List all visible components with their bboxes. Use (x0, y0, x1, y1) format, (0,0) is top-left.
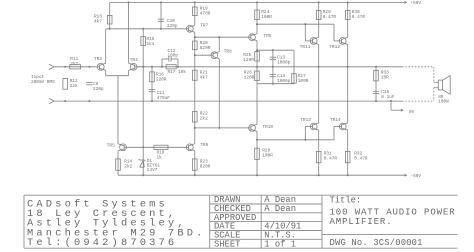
resistor R33 (374, 70, 389, 81)
transistor TR7 (186, 23, 208, 32)
resistor R24 (255, 10, 273, 20)
junction output line (256, 66, 258, 68)
svg-text:0.47R: 0.47R (352, 15, 366, 20)
label input (31, 75, 55, 85)
junction TR10 base line (194, 127, 196, 129)
junction TR9 base line (194, 36, 196, 38)
junction +50V rail (194, 1, 196, 3)
junction output line (272, 66, 274, 68)
node 0V (391, 101, 415, 115)
wire TR14 emitter R32 to -50V (347, 130, 349, 175)
svg-text:0.47R: 0.47R (323, 15, 337, 20)
svg-text:1000p: 1000p (277, 61, 291, 66)
wire output line (137, 66, 402, 68)
svg-text:0.1uF: 0.1uF (381, 95, 395, 100)
svg-text:R17 10k: R17 10k (168, 70, 187, 75)
svg-text:100W: 100W (438, 100, 449, 105)
title block fields (214, 195, 301, 249)
svg-text:820R: 820R (200, 46, 211, 51)
junction R13 node line (142, 28, 144, 30)
junction TR9 base line (218, 36, 220, 38)
svg-text:TR5: TR5 (107, 143, 115, 148)
wire R24 TR9 collector (256, 2, 258, 33)
junction C14 bottom (272, 83, 274, 85)
junction +50V rail (347, 1, 349, 3)
capacitor C11 (149, 90, 170, 102)
svg-text:220R: 220R (156, 77, 167, 82)
wire input to TR3 base (54, 66, 97, 68)
wire -50V rail (118, 174, 404, 176)
wire TR11 base drop (305, 24, 310, 41)
wire TR12 base drop (334, 24, 339, 41)
junction output line (151, 66, 153, 68)
svg-text:2k2: 2k2 (70, 62, 78, 67)
wire R30 to TR12 collector (347, 2, 349, 37)
junction zener top (142, 146, 144, 148)
speaker LS1 8R 100W (434, 76, 450, 105)
wire TR8 collector (218, 37, 220, 51)
svg-text:220p: 220p (167, 24, 178, 29)
svg-text:TR9: TR9 (264, 34, 272, 39)
wire R19 to TR7 collector (194, 2, 196, 25)
resistor R30 (345, 10, 365, 20)
wire R15 / zener column (142, 29, 144, 148)
resistor R13 (94, 14, 112, 24)
wire TR8 collector to TR9 base (195, 36, 249, 38)
junction TR11 base drop (304, 23, 306, 25)
wire R13 column (109, 2, 111, 28)
wire +50V rail (110, 1, 404, 3)
junction input line (64, 66, 66, 68)
wire ground dashed to speaker (402, 100, 434, 102)
resistor R21 (193, 70, 209, 80)
svg-text:A Dean: A Dean (264, 204, 296, 214)
svg-text:100p: 100p (168, 53, 179, 58)
svg-text:TR12: TR12 (329, 45, 340, 50)
svg-text:100R: 100R (262, 154, 273, 159)
wire TR8 base (195, 54, 211, 56)
wire R22 to TR6 collector (194, 128, 196, 144)
svg-text:-50V: -50V (411, 174, 422, 179)
svg-text:DWG No. 3CS/00001: DWG No. 3CS/00001 (330, 238, 423, 248)
junction +50V rail (128, 1, 130, 3)
junction output line (318, 66, 320, 68)
junction output line (375, 66, 377, 68)
capacitor C14 (270, 74, 291, 84)
svg-text:220p: 220p (93, 87, 104, 92)
resistor R31 (316, 151, 337, 162)
wire TR4 collector (128, 2, 130, 63)
junction output line (347, 66, 349, 68)
wire C13 column (272, 50, 274, 67)
resistor R11 (70, 57, 81, 69)
svg-text:Tel:(0942)870376: Tel:(0942)870376 (27, 237, 177, 249)
transistor TR9 (249, 34, 272, 41)
svg-text:TR11: TR11 (300, 45, 311, 50)
title block table rows (210, 204, 322, 239)
junction ground line (151, 100, 153, 102)
junction +50V rail (318, 1, 320, 3)
wire TR12 emitter to TR14 collector (347, 45, 349, 123)
svg-text:100R: 100R (298, 79, 309, 84)
svg-text:470R: 470R (200, 11, 211, 16)
junction R13 node line (109, 28, 111, 30)
svg-text:TR13: TR13 (300, 118, 311, 123)
wire TR14 base drop (334, 127, 339, 140)
wire R27 column (293, 50, 295, 83)
wire C14 column (272, 67, 274, 84)
wire R26/C14/R27 bottoms (257, 83, 294, 85)
svg-text:22k: 22k (70, 84, 78, 89)
junction -50V rail (194, 174, 196, 176)
junction TR9 emitter node (256, 49, 258, 51)
svg-text:100R: 100R (261, 15, 272, 20)
junction -50V rail (142, 174, 144, 176)
resistor R16 (150, 72, 167, 83)
transistor TR4 (129, 58, 138, 71)
svg-text:1k: 1k (157, 156, 163, 161)
svg-text:470uF: 470uF (157, 96, 171, 101)
title block dwg divider (322, 234, 458, 236)
svg-text:Title:: Title: (330, 196, 362, 206)
wire TR7 emitter chain R20 R21 R22 (194, 32, 196, 128)
junction +50V rail (256, 1, 258, 3)
junction ground line (88, 100, 90, 102)
wire TR9 emitter R25 R26 to TR10 collector (256, 41, 258, 125)
capacitor C10 (158, 19, 178, 29)
svg-text:AMPLIFIER.: AMPLIFIER. (330, 217, 393, 227)
wire R16/C11 column (151, 67, 153, 101)
wire TR13 emitter R31 to -50V (318, 130, 320, 175)
junction output base line (256, 139, 258, 141)
svg-text:4k7: 4k7 (94, 19, 102, 24)
wire 0V ground line (54, 100, 402, 102)
wire TR3 emitter (105, 70, 107, 75)
svg-text:TR14: TR14 (330, 118, 341, 123)
svg-text:TR3: TR3 (94, 57, 102, 62)
wire TR10 emitter node to output bases (257, 139, 334, 141)
junction input line (88, 66, 90, 68)
junction TR9 emitter node (272, 49, 274, 51)
resistor R32 (345, 151, 367, 162)
capacitor C15 (373, 90, 395, 100)
junction output line (142, 66, 144, 68)
wire TR6 collector to TR10 base (195, 127, 249, 129)
svg-text:120R: 120R (244, 76, 255, 81)
resistor R14 (116, 159, 133, 170)
svg-text:TR10: TR10 (263, 125, 274, 130)
wire TR5 emitter to R14 to -50V (117, 151, 119, 175)
svg-text:10R: 10R (381, 76, 389, 81)
resistor R19 (193, 6, 211, 16)
wire TR13 base drop (305, 127, 310, 140)
svg-text:200mV RMS: 200mV RMS (31, 80, 55, 85)
wire TR8 emitter down (218, 59, 220, 128)
junction -50V rail (318, 174, 320, 176)
svg-text:0V: 0V (409, 110, 415, 115)
svg-text:TR4: TR4 (130, 58, 138, 63)
svg-text:TR8: TR8 (224, 49, 232, 54)
resistor R17 (166, 65, 186, 75)
wire R13 node to TR7 base (106, 28, 187, 30)
wire TR4 emitter (128, 70, 130, 75)
title block address (27, 199, 206, 249)
power -50V (404, 174, 421, 179)
junction TR10 base line (218, 127, 220, 129)
wire TR5 base to TR6 base (126, 146, 186, 148)
resistor R15 (141, 37, 155, 47)
transistor TR5 (107, 143, 127, 151)
svg-text:2k2: 2k2 (200, 116, 208, 121)
svg-text:0.47R: 0.47R (354, 157, 368, 162)
resistor R22 (193, 111, 209, 122)
transistor TR13 (300, 118, 318, 130)
junction ground line (390, 100, 392, 102)
wire TR6 emitter R23 to -50V (194, 151, 196, 175)
svg-text:+50V: +50V (411, 1, 422, 6)
svg-text:1000p: 1000p (277, 79, 291, 84)
junction +50V rail (160, 1, 162, 3)
wire TR9 emitter node (257, 49, 294, 51)
junction ground line (375, 100, 377, 102)
svg-text:TR6: TR6 (200, 143, 208, 148)
power +50V (404, 1, 421, 6)
transistor TR3 (94, 57, 106, 70)
wire TR3 collector (105, 29, 107, 63)
svg-text:SHEET: SHEET (214, 239, 240, 249)
resistor R29 (316, 10, 336, 20)
wire speaker top dashed (433, 67, 435, 83)
wire C10 column (160, 2, 162, 28)
resistor R28 (255, 148, 274, 159)
transistor TR10 (249, 124, 274, 131)
transistor TR14 (330, 118, 348, 130)
svg-text:1k4: 1k4 (147, 42, 155, 47)
wire emitter tail (106, 75, 129, 77)
svg-text:1 of 1: 1 of 1 (264, 239, 296, 249)
diode D1 zener (139, 159, 161, 173)
resistor R23 (193, 159, 211, 170)
junction TR9 collector node (256, 23, 258, 25)
capacitor C13 (270, 56, 291, 66)
svg-text:120R: 120R (243, 58, 254, 63)
junction -50V rail (256, 174, 258, 176)
capacitor C9 (86, 82, 104, 92)
resistor R27 (292, 74, 309, 84)
transistor TR8 (211, 49, 232, 58)
wire zener to -50V rail (142, 147, 144, 175)
title block frame (24, 195, 458, 248)
transistor TR12 (329, 37, 347, 50)
resistor R26 (244, 71, 259, 81)
transistor TR6 (186, 143, 208, 151)
junction ground line (64, 100, 66, 102)
resistor R18 (154, 145, 168, 160)
connector input ground (49, 98, 54, 103)
wire output dashed to speaker (402, 66, 434, 68)
junction output line (177, 66, 179, 68)
resistor R12 (63, 79, 78, 90)
svg-text:TR7: TR7 (200, 23, 208, 28)
resistor R25 (243, 52, 259, 63)
capacitor C12 (162, 49, 178, 67)
title block title (330, 196, 456, 249)
junction output base line (304, 139, 306, 141)
wire TR9 collector node to driver bases (257, 23, 334, 25)
svg-text:2k2: 2k2 (124, 165, 132, 170)
resistor R20 (193, 41, 211, 51)
junction TR8 base (194, 54, 196, 56)
wire TR10 emitter R28 to -50V (256, 132, 258, 176)
junction R13 node line (160, 28, 162, 30)
wire zobel column (375, 67, 377, 101)
wire speaker bottom dashed (433, 88, 435, 101)
svg-text:C4V7: C4V7 (147, 168, 158, 173)
svg-text:820R: 820R (200, 165, 211, 170)
connector input signal (49, 64, 54, 69)
svg-text:0.47R: 0.47R (324, 157, 338, 162)
junction output line (161, 66, 163, 68)
wire tail to TR5 collector (117, 76, 119, 144)
wire R29 to TR11 collector (318, 2, 320, 37)
wire TR11 emitter to TR13 collector (318, 45, 320, 123)
junction -50V rail (347, 174, 349, 176)
svg-text:4k7: 4k7 (200, 76, 208, 81)
transistor TR11 (300, 37, 319, 50)
